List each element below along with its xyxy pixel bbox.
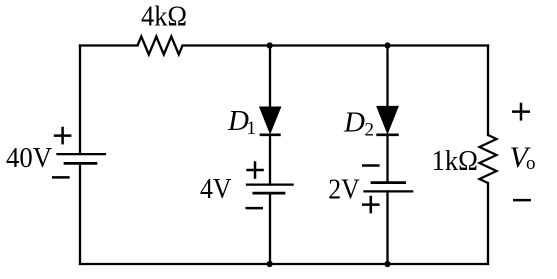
wire 2V battery bottom lead [386, 191, 388, 264]
svg-text:1kΩ: 1kΩ [432, 145, 479, 177]
diode D1 cathode bar [260, 133, 281, 136]
wire branch D1 top lead [269, 46, 271, 108]
wire branch D2 top lead [386, 46, 388, 107]
svg-text:4V: 4V [200, 173, 232, 205]
plus sign of 40V source [54, 127, 72, 145]
wire D2 to 2V battery [386, 135, 388, 183]
battery V2 4V long plate [247, 183, 293, 185]
node junction bottom-right (D2 branch) [384, 261, 390, 267]
node junction bottom-left (D1 branch) [267, 261, 273, 267]
wire right upper (to 1k resistor) [487, 46, 489, 136]
battery V1 40V short plate [65, 162, 96, 165]
plus sign of 4V battery [246, 161, 263, 179]
svg-text:1: 1 [247, 118, 257, 139]
svg-text:4kΩ: 4kΩ [141, 1, 187, 33]
resistor R2 1kOhm zigzag [480, 135, 497, 183]
wire bottom [80, 263, 488, 265]
wire right lower (from 1k resistor) [487, 183, 489, 264]
wire top-left segment [80, 44, 138, 46]
minus sign of 4V battery [246, 207, 264, 210]
svg-text:o: o [526, 153, 536, 174]
svg-text:40V: 40V [6, 142, 52, 174]
plus sign of output Vo [512, 103, 530, 121]
minus sign of output Vo [513, 199, 531, 202]
battery V3 2V long plate [365, 190, 413, 192]
node junction top-right (D2 branch) [384, 42, 390, 48]
battery V1 40V long plate [58, 153, 106, 155]
svg-text:2: 2 [365, 119, 375, 140]
minus sign of 40V source [52, 176, 70, 179]
node junction top-left (D1 branch) [267, 42, 273, 48]
wire 4V battery bottom lead [269, 193, 271, 264]
diode D2 cathode bar [376, 133, 398, 136]
battery V3 2V short plate [372, 181, 405, 184]
wire left upper (40V source top lead) [79, 46, 81, 155]
battery V2 4V short plate [254, 192, 284, 195]
diode D2 triangle [377, 107, 398, 133]
wire left lower (40V source bottom lead) [79, 163, 81, 264]
resistor R1 4kOhm zigzag [138, 37, 183, 55]
diode D1 triangle [260, 107, 280, 132]
minus sign of 2V battery [362, 164, 380, 167]
plus sign of 2V battery [362, 196, 380, 214]
wire D1 to 4V battery [269, 135, 271, 185]
wire top-right segment [183, 44, 489, 46]
svg-text:2V: 2V [328, 174, 360, 206]
svg-text:D: D [343, 106, 365, 138]
